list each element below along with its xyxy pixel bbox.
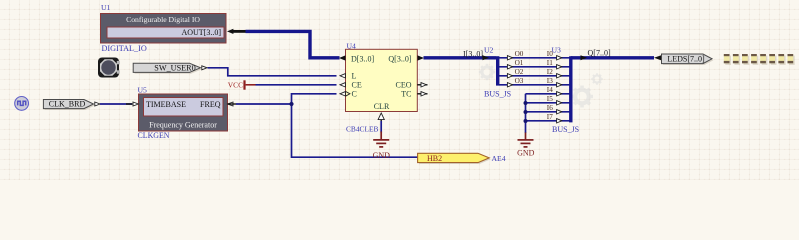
svg-text:CE: CE: [352, 81, 362, 90]
module U5 Frequency Generator: [139, 94, 228, 131]
svg-text:HB2: HB2: [427, 154, 442, 163]
LED 1: [778, 54, 785, 65]
svg-text:BUS_JS: BUS_JS: [552, 125, 579, 134]
svg-text:AE4: AE4: [492, 154, 506, 163]
svg-text:CB4CLEB: CB4CLEB: [346, 124, 379, 133]
pin O1 of U2: [507, 59, 523, 69]
wire U5 FREQ to junction and U4 pin C: [236, 94, 418, 157]
wire O1 to I1: [499, 66, 570, 68]
pin TC of U4: [401, 90, 427, 99]
wire VCC to U4 pin CE: [256, 84, 337, 86]
wire O2 to I2: [499, 75, 570, 77]
ground GND at I4..I7: [518, 133, 534, 147]
pin AOUT[3..0] of U1: [107, 27, 246, 38]
counter U4 (CB4CLEB) body: [346, 49, 418, 111]
wire O0 to I0: [499, 57, 570, 59]
junction I7: [524, 119, 528, 123]
svg-text:I[3..0]: I[3..0]: [463, 49, 483, 58]
pin L of U4: [340, 72, 357, 81]
svg-text:C: C: [352, 90, 357, 99]
svg-text:FREQ: FREQ: [200, 100, 221, 109]
svg-text:CEO: CEO: [396, 81, 412, 90]
svg-text:O2: O2: [515, 68, 524, 76]
pin TIMEBASE of U5: [133, 100, 186, 109]
pin D[3..0] of U4: [339, 54, 374, 63]
pin FREQ of U5: [200, 100, 236, 109]
LED bar: 8 SMD LEDs: [724, 54, 795, 65]
pin O2 of U2: [507, 68, 523, 78]
svg-text:U1: U1: [101, 3, 111, 12]
svg-text:AOUT[3..0]: AOUT[3..0]: [181, 28, 221, 37]
bus joiner U2 BUS_JS: [483, 55, 498, 85]
pin O0 of U2: [507, 50, 523, 60]
svg-text:I7: I7: [547, 113, 553, 121]
svg-text:VCC: VCC: [228, 81, 243, 90]
svg-text:I3: I3: [547, 77, 553, 85]
svg-text:U5: U5: [138, 86, 148, 95]
pin I2 of U3: [547, 68, 562, 78]
svg-text:I6: I6: [547, 104, 553, 112]
bus U3 out to LEDS port: [571, 55, 654, 60]
pin I1 of U3: [547, 59, 562, 69]
pin I0 of U3: [547, 50, 562, 60]
LED 5: [742, 54, 749, 65]
port CLK_BRD: [43, 100, 100, 111]
wire CLK_BRD to U5 TIMEBASE: [100, 103, 132, 105]
svg-text:Frequency Generator: Frequency Generator: [149, 120, 217, 129]
svg-text:U4: U4: [347, 42, 357, 51]
svg-text:O0: O0: [515, 50, 524, 58]
LED 0: [788, 54, 795, 65]
module U1 Configurable Digital IO: [101, 14, 227, 44]
svg-text:CLK_BRD: CLK_BRD: [49, 100, 86, 109]
svg-text:Configurable Digital IO: Configurable Digital IO: [126, 15, 200, 24]
LED 3: [760, 54, 767, 65]
power port VCC: [228, 80, 256, 89]
svg-text:U2: U2: [484, 46, 494, 55]
bus U4 Q[3..0] to U2: [424, 56, 497, 59]
push button icon: [98, 58, 120, 78]
svg-text:O3: O3: [515, 77, 524, 85]
pin I7 of U3: [547, 113, 562, 123]
junction I6: [524, 110, 528, 114]
svg-text:I2: I2: [547, 68, 553, 76]
port LEDS[7..0]: [654, 54, 713, 65]
ground GND at U4 CLR: [373, 132, 389, 147]
svg-text:TIMEBASE: TIMEBASE: [146, 100, 186, 109]
svg-text:I1: I1: [547, 59, 553, 67]
wire U4 CLR to ground: [380, 121, 382, 133]
svg-text:CLKGEN: CLKGEN: [138, 131, 170, 140]
pin C of U4 (clock): [340, 90, 357, 99]
svg-text:D[3..0]: D[3..0]: [351, 54, 374, 63]
svg-text:U3: U3: [552, 46, 562, 55]
svg-text:Q[3..0]: Q[3..0]: [388, 54, 411, 63]
svg-text:O1: O1: [515, 59, 524, 67]
port SW_USER0: [133, 63, 207, 74]
LED 2: [769, 54, 776, 65]
pin I4 of U3: [547, 86, 562, 96]
svg-text:Q[7..0]: Q[7..0]: [588, 48, 611, 57]
junction at FREQ branch: [289, 102, 293, 106]
svg-text:GND: GND: [373, 151, 391, 160]
svg-text:TC: TC: [401, 90, 411, 99]
bus joiner U3 BUS_JS: [569, 56, 572, 122]
pin I3 of U3: [547, 77, 562, 87]
svg-text:L: L: [352, 72, 357, 81]
wire SW_USER0 to U4 pin L: [208, 68, 337, 76]
LED 7: [724, 54, 731, 65]
pin O3 of U2: [507, 77, 523, 87]
pin CEO of U4: [396, 81, 428, 90]
svg-text:LEDS[7..0]: LEDS[7..0]: [667, 55, 705, 64]
svg-text:GND: GND: [517, 149, 535, 158]
junction I5: [524, 101, 528, 105]
pin Q[3..0] of U4: [388, 54, 424, 63]
svg-text:I5: I5: [547, 95, 553, 103]
LED 6: [733, 54, 740, 65]
svg-text:DIGITAL_IO: DIGITAL_IO: [102, 44, 147, 53]
wire O3 to I3: [499, 84, 570, 86]
bus AOUT[3..0] from U1 to U4 D: [246, 31, 340, 57]
svg-text:CLR: CLR: [374, 102, 390, 111]
svg-text:BUS_JS: BUS_JS: [484, 89, 511, 98]
LED 4: [751, 54, 758, 65]
clock source icon: [15, 97, 29, 111]
svg-text:SW_USER0: SW_USER0: [154, 63, 195, 72]
pin I6 of U3: [547, 104, 562, 114]
harness label HB2: [418, 153, 491, 164]
pin I5 of U3: [547, 95, 562, 105]
svg-text:I4: I4: [547, 86, 553, 94]
wire GND chain to I4..I7: [526, 94, 570, 133]
pin CE of U4: [340, 81, 362, 90]
pin CLR of U4: [374, 102, 390, 123]
